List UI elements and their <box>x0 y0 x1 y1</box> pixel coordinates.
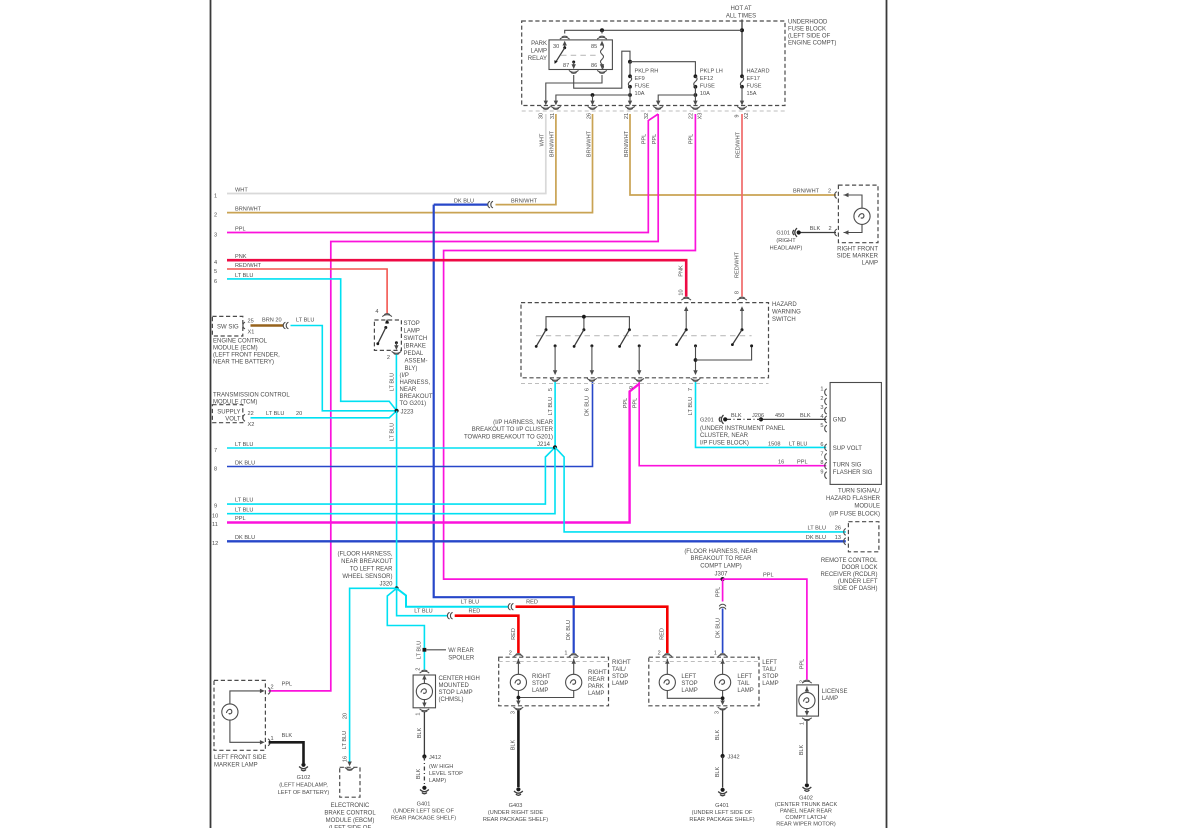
fuse HAZARD EF17 <box>740 74 744 78</box>
labels BLK J206 450 BLK <box>731 413 811 419</box>
svg-text:LEFT: LEFT <box>737 674 752 680</box>
switch arm pin 10 <box>685 308 687 330</box>
ground G102 <box>299 763 308 771</box>
svg-text:FUSE: FUSE <box>747 84 762 90</box>
svg-text:STOP: STOP <box>612 674 628 680</box>
svg-text:LAMP: LAMP <box>822 696 838 702</box>
svg-text:FLASHER SIG: FLASHER SIG <box>833 470 873 476</box>
label RIGHT REAR PARK LAMP <box>588 670 607 697</box>
svg-text:LT BLU: LT BLU <box>235 442 253 448</box>
svg-text:X1: X1 <box>248 330 255 336</box>
svg-text:LT BLU: LT BLU <box>390 423 396 441</box>
lamp CHMSL <box>423 679 425 684</box>
svg-text:1: 1 <box>820 387 823 393</box>
module pin numbers and connectors <box>820 387 823 476</box>
svg-text:BLK: BLK <box>417 727 423 738</box>
svg-text:COMPT LATCH/: COMPT LATCH/ <box>785 815 827 821</box>
switch contact to pin 2 <box>395 341 398 344</box>
hazard connector face <box>521 383 769 385</box>
svg-text:2: 2 <box>416 668 422 671</box>
svg-text:2: 2 <box>387 355 390 361</box>
svg-text:(UNDER LEFT: (UNDER LEFT <box>838 579 878 585</box>
label ELECTRONIC BRAKE CONTROL MODULE <box>324 803 376 828</box>
svg-text:CLUSTER, NEAR: CLUSTER, NEAR <box>700 433 749 439</box>
svg-text:ENGINE CONTROL: ENGINE CONTROL <box>213 339 268 345</box>
svg-text:BREAKOUT TO I/P CLUSTER: BREAKOUT TO I/P CLUSTER <box>472 427 554 433</box>
wire LT BLU J320 to right stop lamp splice <box>397 588 448 615</box>
output contact pin 7 with link <box>694 344 697 347</box>
hazard bottom connectors <box>550 378 560 381</box>
svg-text:5: 5 <box>820 423 823 429</box>
node J412 <box>422 754 426 758</box>
svg-text:LT BLU: LT BLU <box>789 441 807 447</box>
svg-text:RED: RED <box>469 609 481 615</box>
svg-text:LAMP: LAMP <box>681 688 697 694</box>
svg-text:3: 3 <box>715 711 721 714</box>
wire LT BLU J320 to CHMSL <box>387 588 424 669</box>
svg-text:20: 20 <box>296 411 302 417</box>
svg-text:J412: J412 <box>429 755 441 761</box>
svg-text:9: 9 <box>629 386 635 389</box>
fuse block connector edge <box>522 110 785 112</box>
svg-text:10: 10 <box>212 514 218 520</box>
svg-text:LT BLU: LT BLU <box>390 373 396 391</box>
svg-text:G402: G402 <box>799 796 813 802</box>
svg-text:TO LEFT REAR: TO LEFT REAR <box>350 567 393 573</box>
wire BLK to G101 <box>799 232 836 234</box>
svg-text:REAR PACKAGE SHELF): REAR PACKAGE SHELF) <box>483 817 548 823</box>
wire bus to park lamp relay <box>565 30 742 33</box>
svg-text:1: 1 <box>271 736 274 742</box>
svg-text:LT BLU: LT BLU <box>266 411 284 417</box>
hazard internal bus <box>546 317 629 330</box>
svg-text:LAMP: LAMP <box>737 688 753 694</box>
svg-text:BREAKOUT TO REAR: BREAKOUT TO REAR <box>690 556 752 562</box>
svg-text:BRN/WHT: BRN/WHT <box>793 189 820 195</box>
wire LT BLU J214 to RCDLR <box>555 447 846 532</box>
license lamp box <box>797 685 819 716</box>
svg-text:PPL: PPL <box>282 681 293 687</box>
svg-text:BRN/WHT: BRN/WHT <box>511 198 538 204</box>
svg-text:13: 13 <box>835 535 841 541</box>
svg-text:(FLOOR HARNESS, NEAR: (FLOOR HARNESS, NEAR <box>684 549 758 555</box>
svg-text:LEFT OF BATTERY): LEFT OF BATTERY) <box>278 790 330 796</box>
svg-text:ALL TIMES: ALL TIMES <box>726 14 756 20</box>
splice PPL to DK BLU <box>719 604 726 609</box>
wire RED to left stop lamp <box>516 607 668 653</box>
svg-text:32: 32 <box>644 113 650 119</box>
svg-text:G401: G401 <box>417 802 431 808</box>
wire LT BLU hazard pin7 to flasher module <box>696 382 827 447</box>
svg-text:LAMP: LAMP <box>588 691 604 697</box>
wire PPL hazard pin9 to flasher module <box>639 382 826 466</box>
svg-text:PEDAL: PEDAL <box>404 351 424 357</box>
lamp left stop <box>666 659 668 675</box>
relay pin 86 bottom connector <box>597 70 607 73</box>
svg-text:MODULE (ECM): MODULE (ECM) <box>213 346 258 352</box>
ground G402 <box>803 783 812 791</box>
svg-text:2: 2 <box>820 396 823 402</box>
wire EF9 output <box>628 93 632 97</box>
svg-text:BRN/WHT: BRN/WHT <box>550 130 556 157</box>
wire BRN/WHT pin21 to right marker <box>630 114 836 195</box>
svg-text:LT BLU: LT BLU <box>461 600 479 606</box>
svg-text:5: 5 <box>214 269 217 275</box>
TCM SUPPLY VOLT connector box <box>212 405 242 423</box>
svg-text:10A: 10A <box>635 91 645 97</box>
hazard warning switch box <box>521 303 769 378</box>
svg-text:EF17: EF17 <box>747 76 760 82</box>
hazard mech dashed line <box>536 335 752 337</box>
svg-text:FUSE: FUSE <box>635 84 650 90</box>
svg-text:LT BLU: LT BLU <box>548 397 554 415</box>
svg-text:(LEFT SIDE OF: (LEFT SIDE OF <box>788 34 831 40</box>
svg-text:BLK: BLK <box>715 766 721 777</box>
label LEFT STOP LAMP <box>681 674 697 694</box>
lamp left tail <box>722 659 724 675</box>
svg-text:LAMP: LAMP <box>532 688 548 694</box>
wire PPL J307 to license lamp <box>723 579 807 679</box>
label J214 breakout <box>464 420 554 448</box>
svg-text:MODULE: MODULE <box>854 504 880 510</box>
svg-text:G401: G401 <box>715 803 729 809</box>
output contact pin 9 <box>638 344 641 347</box>
wire battery feed (hot at all times) <box>741 20 743 77</box>
switch arm 3 <box>628 328 631 331</box>
svg-text:TRANSMISSION CONTROL: TRANSMISSION CONTROL <box>213 393 290 399</box>
label pin 2 top <box>793 189 831 195</box>
svg-text:PPL: PPL <box>689 134 695 145</box>
svg-text:LAMP: LAMP <box>862 261 878 267</box>
svg-text:(RIGHT: (RIGHT <box>776 238 796 244</box>
svg-text:PPL: PPL <box>797 460 808 466</box>
svg-text:J214: J214 <box>537 442 551 448</box>
label I/P HARNESS breakout J223 <box>400 373 433 415</box>
svg-text:30: 30 <box>539 113 545 119</box>
wire BRN/WHT pin31 to connector <box>496 114 556 205</box>
svg-text:3: 3 <box>511 711 517 714</box>
svg-text:FUSE BLOCK: FUSE BLOCK <box>788 27 826 33</box>
svg-text:DK BLU: DK BLU <box>235 461 255 467</box>
wire LT BLU ECM to J223 <box>291 326 397 411</box>
wire RED to right stop lamp <box>455 616 519 653</box>
svg-text:RED: RED <box>526 600 538 606</box>
relay mech dashed line <box>561 54 599 56</box>
svg-text:2: 2 <box>658 651 661 657</box>
svg-text:LT BLU: LT BLU <box>342 731 348 749</box>
svg-text:TAIL: TAIL <box>737 681 750 687</box>
svg-text:RECEIVER (RCDLR): RECEIVER (RCDLR) <box>820 572 877 578</box>
svg-text:LEFT FRONT SIDE: LEFT FRONT SIDE <box>214 755 266 761</box>
svg-text:LT BLU: LT BLU <box>235 498 253 504</box>
svg-text:LEFT: LEFT <box>681 674 696 680</box>
right tail/stop lamp box <box>499 657 609 706</box>
svg-text:REAR PACKAGE SHELF): REAR PACKAGE SHELF) <box>391 816 456 822</box>
svg-text:22: 22 <box>689 113 695 119</box>
svg-text:450: 450 <box>775 413 784 419</box>
svg-text:4: 4 <box>214 260 217 266</box>
wire DK BLU main vertical to rear park lamps <box>434 205 574 653</box>
label LEFT TAIL LAMP <box>737 674 753 694</box>
svg-text:PPL: PPL <box>623 398 629 409</box>
svg-text:UNDERHOOD: UNDERHOOD <box>788 20 828 26</box>
svg-text:SIDE OF DASH): SIDE OF DASH) <box>833 586 877 592</box>
svg-text:BLK: BLK <box>416 768 422 779</box>
wire LT BLU hazard pin5 to J214 <box>554 382 556 447</box>
wire fuse feed to EF12 <box>630 62 695 76</box>
svg-text:PKLP LH: PKLP LH <box>700 69 723 75</box>
svg-text:DK BLU: DK BLU <box>585 396 591 416</box>
label HOT AT ALL TIMES <box>726 6 756 20</box>
svg-text:G102: G102 <box>297 775 311 781</box>
relay contact 87 <box>572 61 575 64</box>
svg-text:RED: RED <box>511 628 517 640</box>
wire EF12 output <box>694 93 698 97</box>
svg-text:PPL: PPL <box>800 659 806 670</box>
pin number labels fuse block <box>539 113 751 120</box>
svg-text:SW SIG: SW SIG <box>217 325 239 331</box>
svg-text:DK BLU: DK BLU <box>454 198 474 204</box>
svg-text:LICENSE: LICENSE <box>822 689 848 695</box>
svg-text:STOP LAMP: STOP LAMP <box>439 690 473 696</box>
svg-text:J206: J206 <box>752 413 764 419</box>
svg-text:MOUNTED: MOUNTED <box>439 683 470 689</box>
svg-text:87: 87 <box>563 63 569 69</box>
wire PPL pin22 to J307 run <box>444 114 721 579</box>
wire BLK right to G403 <box>517 711 520 788</box>
svg-text:LAMP): LAMP) <box>429 778 446 784</box>
svg-text:WHEEL SENSOR): WHEEL SENSOR) <box>342 574 392 580</box>
svg-text:LT BLU: LT BLU <box>416 641 422 659</box>
wire PPL pin32 to wire3 <box>227 114 658 233</box>
svg-text:HAZARD: HAZARD <box>747 69 770 75</box>
wire LT BLU J320 to left stop lamp splice <box>397 588 509 606</box>
svg-text:LAMP: LAMP <box>612 681 628 687</box>
svg-text:RED/WHT: RED/WHT <box>235 263 262 269</box>
svg-text:21: 21 <box>624 113 630 119</box>
lamp right rear park <box>573 659 575 675</box>
svg-text:STOP: STOP <box>404 321 420 327</box>
svg-text:BLY): BLY) <box>405 366 418 372</box>
svg-text:TAIL/: TAIL/ <box>612 667 626 673</box>
svg-text:7: 7 <box>820 451 823 457</box>
svg-text:(BRAKE: (BRAKE <box>404 344 426 350</box>
svg-text:LT BLU: LT BLU <box>688 397 694 415</box>
svg-text:(CENTER TRUNK BACK: (CENTER TRUNK BACK <box>775 802 838 808</box>
label PARK LAMP RELAY <box>528 41 547 62</box>
svg-text:ASSEM-: ASSEM- <box>405 359 428 365</box>
svg-text:PARK: PARK <box>588 684 604 690</box>
lamp right front side marker <box>844 195 863 208</box>
svg-text:LEVEL STOP: LEVEL STOP <box>429 771 463 777</box>
label RIGHT STOP LAMP <box>532 674 551 694</box>
svg-text:PNK: PNK <box>679 265 685 277</box>
svg-text:1: 1 <box>214 194 217 200</box>
svg-text:LAMP: LAMP <box>404 329 420 335</box>
svg-text:STOP: STOP <box>681 681 697 687</box>
svg-text:DK BLU: DK BLU <box>806 535 826 541</box>
svg-text:GND: GND <box>833 418 847 424</box>
svg-text:BLK: BLK <box>731 413 742 419</box>
svg-text:REAR PACKAGE SHELF): REAR PACKAGE SHELF) <box>689 817 754 823</box>
svg-text:WARNING: WARNING <box>772 310 801 316</box>
svg-text:TO G201): TO G201) <box>400 401 427 407</box>
connector splice DK BLU / BRN/WHT <box>434 204 488 206</box>
node J320 <box>395 586 399 590</box>
svg-text:PPL: PPL <box>235 227 246 233</box>
wire BLK module pin4 to J206 <box>761 418 826 420</box>
svg-text:J307: J307 <box>714 571 728 577</box>
svg-text:BLK: BLK <box>511 739 517 750</box>
svg-text:WHT: WHT <box>235 188 248 194</box>
svg-text:RIGHT FRONT: RIGHT FRONT <box>837 247 878 253</box>
park lamp relay box <box>549 40 612 70</box>
svg-text:BLK: BLK <box>810 226 821 232</box>
svg-text:WHT: WHT <box>540 133 546 146</box>
lamp left front side marker <box>230 691 261 704</box>
svg-text:8: 8 <box>735 291 741 294</box>
node J206 <box>759 417 763 421</box>
svg-text:(I/P: (I/P <box>400 373 409 379</box>
svg-text:2: 2 <box>509 651 512 657</box>
svg-text:(LEFT FRONT FENDER,: (LEFT FRONT FENDER, <box>213 353 280 359</box>
svg-text:RELAY: RELAY <box>528 56 547 62</box>
relay pin 85 connector <box>597 36 607 39</box>
splice to RED right stop lamp <box>447 612 452 619</box>
svg-text:LAMP: LAMP <box>531 49 547 55</box>
svg-text:LT BLU: LT BLU <box>235 508 253 514</box>
svg-text:X3: X3 <box>698 113 704 120</box>
ground G401 (left tail) <box>718 788 727 796</box>
label ENGINE CONTROL MODULE <box>213 339 280 366</box>
wire BLK to G102 <box>269 742 304 763</box>
labels 1508 LT BLU <box>768 441 807 447</box>
label STOP LAMP SWITCH (BRAKE PEDAL ASSEMBLY) <box>404 321 428 372</box>
svg-text:16: 16 <box>778 460 784 466</box>
svg-text:RIGHT: RIGHT <box>612 660 631 666</box>
ground G401 (chmsl) <box>420 786 429 794</box>
svg-text:30: 30 <box>553 44 559 50</box>
relay pin 30 connector <box>560 36 570 39</box>
wire BRN/WHT pin26 (wire 2) <box>227 114 593 213</box>
svg-text:CENTER HIGH: CENTER HIGH <box>439 676 480 682</box>
relay switch arm 30-87 <box>563 46 566 49</box>
svg-text:G201: G201 <box>700 418 714 424</box>
node J214 <box>553 445 557 449</box>
right front side marker lamp box <box>838 185 878 243</box>
label LICENSE LAMP <box>822 689 848 702</box>
svg-text:PPL: PPL <box>715 587 721 598</box>
wire EF17 output <box>741 87 743 101</box>
svg-text:EF12: EF12 <box>700 76 713 82</box>
svg-text:25: 25 <box>248 319 254 325</box>
node bus/coil junction <box>600 28 604 32</box>
output contact pin 5 <box>554 344 557 347</box>
svg-text:HEADLAMP): HEADLAMP) <box>770 246 803 252</box>
svg-text:PPL: PPL <box>763 573 774 579</box>
svg-text:LT BLU: LT BLU <box>235 273 253 279</box>
switch arm <box>386 321 389 324</box>
wire LT BLU J320 to EBCM <box>350 588 397 762</box>
stop lamp switch box <box>374 320 401 350</box>
wire LT BLU J223 to J320 <box>396 411 398 589</box>
svg-text:RIGHT: RIGHT <box>588 670 607 676</box>
label LEFT FRONT SIDE MARKER LAMP <box>214 755 266 769</box>
switch arm 1 <box>545 328 548 331</box>
svg-text:HARNESS,: HARNESS, <box>400 380 431 386</box>
svg-text:TAIL/: TAIL/ <box>762 667 776 673</box>
wire color labels below fuse block <box>540 130 742 158</box>
svg-text:DK BLU: DK BLU <box>566 620 572 640</box>
lamp right stop <box>517 659 519 675</box>
switch arm 2 <box>582 328 585 331</box>
svg-text:(CHMSL): (CHMSL) <box>439 697 464 703</box>
svg-text:X2: X2 <box>248 422 255 428</box>
svg-text:PKLP RH: PKLP RH <box>635 69 659 75</box>
svg-text:3: 3 <box>820 405 823 411</box>
svg-text:(UNDER LEFT SIDE OF: (UNDER LEFT SIDE OF <box>393 809 454 815</box>
svg-text:NEAR BREAKOUT: NEAR BREAKOUT <box>341 559 393 565</box>
svg-text:10A: 10A <box>700 91 710 97</box>
svg-text:SPOILER: SPOILER <box>448 656 475 662</box>
module labels <box>833 418 873 476</box>
wire PPL J307 stub down <box>722 579 724 601</box>
label UNDERHOOD FUSE BLOCK <box>788 20 836 47</box>
svg-text:TURN SIGNAL/: TURN SIGNAL/ <box>838 489 880 495</box>
wire EF12 output to pin32 <box>658 95 695 101</box>
wire PPL pin32 to left marker <box>269 114 659 691</box>
svg-text:31: 31 <box>550 113 556 119</box>
svg-text:RED/WHT: RED/WHT <box>736 131 742 158</box>
svg-text:J320: J320 <box>379 582 393 588</box>
svg-text:PPL: PPL <box>642 134 648 145</box>
left tail/stop lamp box <box>649 657 759 706</box>
wire BLK license to G402 <box>806 721 808 783</box>
node battery bus junction <box>740 28 744 32</box>
svg-text:1: 1 <box>714 651 717 657</box>
svg-text:6: 6 <box>585 388 591 391</box>
svg-text:8: 8 <box>214 467 217 473</box>
left page border <box>210 0 212 828</box>
wire LT BLU TCM to J223 <box>251 411 397 418</box>
labels LT BLU 26 / DK BLU 13 <box>806 526 841 541</box>
node J342 <box>721 754 725 758</box>
svg-text:4: 4 <box>375 309 378 315</box>
svg-text:8: 8 <box>820 460 823 466</box>
svg-text:(UNDER INSTRUMENT PANEL: (UNDER INSTRUMENT PANEL <box>700 426 786 432</box>
svg-text:COMPT LAMP): COMPT LAMP) <box>700 564 742 570</box>
svg-text:2: 2 <box>828 189 831 195</box>
wire EF9 output bus to pins 31/26 <box>556 95 630 101</box>
label TURN SIGNAL/HAZARD FLASHER MODULE <box>826 489 881 518</box>
wire BLK dashed J412 to G401 <box>423 757 425 786</box>
svg-text:BLK: BLK <box>800 413 811 419</box>
svg-text:(LEFT HEADLAMP,: (LEFT HEADLAMP, <box>279 783 328 789</box>
svg-text:6: 6 <box>214 279 217 285</box>
wire BLK J342 to G401 <box>722 756 724 788</box>
fuse PKLP LH EF12 <box>694 74 698 78</box>
svg-text:PPL: PPL <box>652 134 658 145</box>
svg-text:PARK: PARK <box>531 41 547 47</box>
svg-text:SIDE MARKER: SIDE MARKER <box>837 254 879 260</box>
CHMSL box <box>413 675 435 708</box>
label floor harness breakout J320 <box>337 552 393 588</box>
svg-text:20: 20 <box>343 713 349 719</box>
wire relay 86 to pin30 output <box>546 75 602 101</box>
wire relay 87 to fuses <box>574 51 630 88</box>
svg-text:3: 3 <box>214 233 217 239</box>
svg-text:10: 10 <box>679 289 685 295</box>
